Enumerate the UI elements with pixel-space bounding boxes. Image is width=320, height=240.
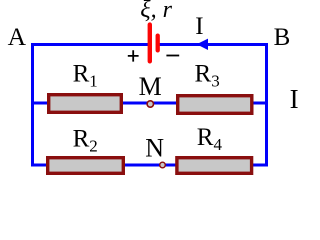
node N: [160, 162, 166, 168]
node M: [147, 101, 153, 107]
svg-text:R3: R3: [195, 60, 220, 90]
svg-text:I: I: [290, 84, 299, 114]
resistor R4 body: [177, 158, 252, 174]
svg-text:R2: R2: [73, 126, 98, 156]
resistor R3 body: [178, 96, 252, 114]
svg-text:R1: R1: [73, 61, 98, 91]
resistor R2 body: [48, 158, 124, 174]
wire middle branch: [31, 102, 268, 105]
svg-text:B: B: [274, 24, 291, 51]
svg-text:I: I: [195, 13, 203, 40]
battery short plate: [156, 36, 160, 51]
battery long plate: [148, 25, 152, 62]
wire outer loop: [33, 45, 267, 166]
svg-text:M: M: [139, 72, 162, 101]
resistor R1 body: [49, 95, 122, 113]
svg-text:A: A: [8, 22, 27, 51]
svg-text:R4: R4: [197, 124, 223, 154]
svg-text:ξ, r: ξ, r: [140, 0, 172, 23]
svg-text:N: N: [145, 133, 164, 162]
battery cell gap: [152, 41, 158, 48]
current arrow I (pointing left): [197, 39, 208, 50]
battery plus sign: [128, 50, 139, 61]
battery minus sign: [166, 55, 179, 57]
